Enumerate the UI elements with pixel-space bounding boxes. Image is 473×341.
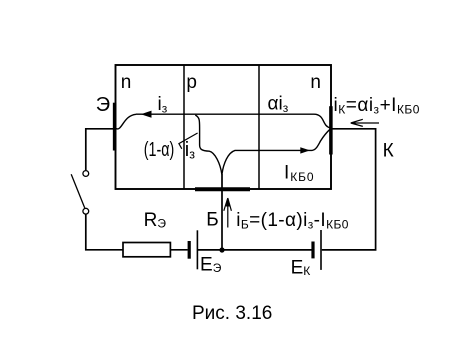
battery Е_Э negative plate (short thick) — [188, 241, 191, 259]
svg-text:n: n — [310, 72, 321, 93]
leader line from label to branch — [179, 133, 198, 149]
wire current path into collector bar (s-curve) — [314, 114, 330, 128]
wire recombination branch (1-α)i_з curve down to base — [195, 115, 222, 174]
resistor R_Э body — [123, 243, 170, 257]
svg-text:з: з — [189, 147, 195, 161]
base electrode bar — [195, 187, 250, 191]
svg-text:Б: Б — [206, 210, 218, 231]
svg-text:Э: Э — [96, 94, 110, 116]
wire bottom Е_Э to Е_К — [197, 249, 311, 251]
svg-text:n: n — [121, 72, 132, 93]
wire switch to resistor — [86, 214, 123, 250]
wire resistor to battery — [170, 249, 187, 251]
battery Е_К positive plate (long thin) — [320, 230, 322, 270]
arrowhead i_з (solid, pointing left) — [141, 111, 152, 118]
emitter-base junction divider — [183, 65, 185, 189]
emitter electrode bar — [113, 103, 117, 151]
battery Е_К negative plate (short thick) — [311, 242, 314, 259]
collector-base junction divider — [258, 65, 260, 189]
wire current path from emitter bar (s-curve) — [116, 114, 136, 129]
switch lever — [71, 174, 85, 208]
svg-text:p: p — [186, 72, 197, 93]
arrow i_К direction (open arrow pointing left) — [351, 119, 379, 126]
svg-text:(1-α): (1-α) — [144, 139, 175, 161]
wire emitter lead horizontal — [86, 129, 113, 171]
arrowhead I_КБ0 (solid, pointing right) — [300, 147, 310, 153]
node base junction dot — [219, 247, 224, 252]
wire I_КБ0 path: cusp up to line, right, curl to collector bar — [222, 129, 331, 175]
svg-text:Рис. 3.16: Рис. 3.16 — [192, 303, 272, 324]
svg-text:К: К — [383, 141, 394, 162]
wire collector lead: bar to right, down to Е_К — [322, 129, 376, 250]
battery Е_Э positive plate (long thin) — [196, 230, 198, 269]
collector electrode bar — [329, 106, 333, 154]
transistor structure outline — [116, 65, 332, 189]
switch upper contact — [83, 171, 89, 177]
arrow i_Б (thin, pointing up) — [224, 198, 232, 228]
switch lower contact — [83, 208, 89, 214]
wire main current line — [136, 113, 314, 115]
wire base lead vertical — [221, 174, 223, 250]
